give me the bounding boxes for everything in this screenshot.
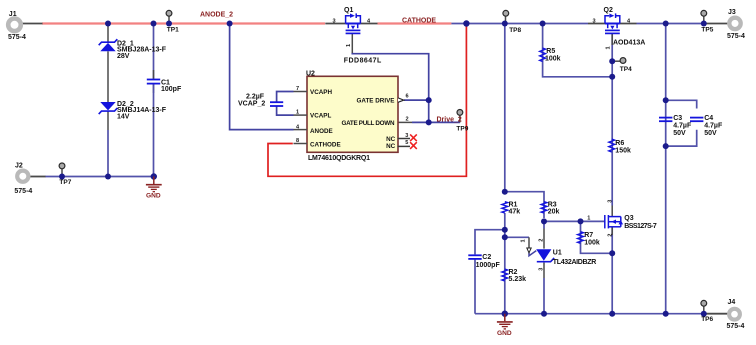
wire GATE DRIVE pin bbox=[404, 99, 429, 101]
svg-text:575-4: 575-4 bbox=[14, 188, 32, 195]
svg-text:2: 2 bbox=[406, 116, 409, 122]
U2 pin 7 VCAPH bbox=[294, 86, 333, 96]
ground GND bottom bbox=[497, 314, 513, 337]
svg-text:3: 3 bbox=[607, 200, 613, 203]
wire TP6 stub bbox=[703, 306, 705, 314]
svg-text:TP5: TP5 bbox=[701, 26, 713, 33]
wire Q3 source down bbox=[611, 227, 613, 314]
wire bottom GND rail bbox=[475, 313, 705, 315]
testpoint TP9 bbox=[456, 110, 468, 133]
svg-text:NC: NC bbox=[386, 143, 396, 150]
node junction GATE DRIVE node bbox=[426, 97, 432, 103]
svg-text:TP4: TP4 bbox=[620, 66, 632, 73]
connector J4 bbox=[727, 299, 745, 330]
wire C2 lower bbox=[474, 260, 476, 314]
svg-text:TL432AIDBZR: TL432AIDBZR bbox=[553, 259, 597, 266]
wire TP7 stub bbox=[61, 169, 63, 177]
wire Q2 gate vertical bbox=[611, 34, 613, 206]
U2 pin 6 GATE DRIVE bbox=[356, 94, 408, 105]
transistor Q1 FDD8647L bbox=[325, 7, 382, 65]
svg-text:50V: 50V bbox=[673, 130, 686, 137]
testpoint TP8 bbox=[503, 10, 522, 34]
wire TP5 stub bbox=[703, 16, 705, 23]
node junction C3 C4 top bbox=[663, 97, 669, 103]
svg-text:50V: 50V bbox=[704, 130, 717, 137]
shunt reference U1 TL432AIDBZR bbox=[520, 239, 596, 271]
U2 pin 1 VCAPL bbox=[294, 110, 332, 120]
wire U1 anode pin stub bbox=[543, 263, 545, 278]
svg-text:575-4: 575-4 bbox=[727, 323, 745, 330]
node junction Q3 source bottom bbox=[609, 311, 615, 317]
ground GND left bbox=[146, 177, 162, 200]
node junction GATE PULL DOWN node bbox=[426, 119, 432, 125]
node junction C3 top rail bbox=[663, 21, 669, 27]
node junction TP7 bbox=[59, 174, 65, 180]
svg-text:1: 1 bbox=[587, 215, 590, 221]
svg-text:5.23k: 5.23k bbox=[509, 276, 527, 283]
svg-text:TP6: TP6 bbox=[701, 316, 713, 323]
U2 pin 8 CATHODE bbox=[294, 138, 341, 148]
resistor R5 100k bbox=[540, 48, 561, 62]
wire U1 cathode pin stub bbox=[543, 229, 545, 249]
node junction GND bottom bbox=[502, 311, 508, 317]
connector J3 bbox=[727, 9, 745, 40]
svg-text:1: 1 bbox=[606, 46, 612, 49]
svg-text:2: 2 bbox=[607, 234, 613, 237]
svg-text:1: 1 bbox=[520, 239, 526, 242]
svg-text:VCAP_2: VCAP_2 bbox=[238, 100, 265, 107]
node junction C3 C4 bottom bbox=[663, 143, 669, 149]
wire GATE PULL DOWN stub bbox=[398, 121, 413, 123]
svg-text:8: 8 bbox=[296, 138, 299, 144]
svg-text:C4: C4 bbox=[704, 115, 713, 122]
node junction TP1 bbox=[166, 21, 172, 27]
wire GATE PULL DOWN to TP9 bbox=[412, 121, 460, 123]
wire D2 branch bbox=[107, 25, 109, 131]
wire C4 loop bbox=[666, 100, 697, 108]
node junction R7 Q3 source bbox=[609, 250, 615, 256]
svg-text:J1: J1 bbox=[9, 11, 17, 18]
svg-text:3: 3 bbox=[405, 133, 408, 139]
zener diode D2_2 bbox=[99, 101, 167, 121]
wire TP8 stub bbox=[505, 16, 507, 23]
capacitor C4 4.7uF bbox=[690, 115, 723, 137]
resistor R3 20k bbox=[541, 202, 559, 216]
wire VCAP loop top bbox=[277, 92, 294, 102]
svg-text:VCAPL: VCAPL bbox=[310, 112, 331, 119]
testpoint TP7 bbox=[59, 163, 72, 186]
zener diode D2_1 bbox=[99, 39, 167, 60]
node junction R1 R3 top bbox=[502, 189, 508, 195]
capacitor C3 4.7uF bbox=[659, 115, 692, 137]
wire net ANODE_2 vertical to U2 bbox=[230, 24, 294, 130]
node junction D2 top rail bbox=[105, 21, 111, 27]
wire R1 to dots bbox=[504, 213, 506, 237]
U2 pin 2 GATE PULL DOWN bbox=[342, 116, 409, 127]
node junction CATHODE red tap bbox=[463, 20, 469, 26]
wire J1 stub bbox=[22, 23, 43, 25]
node junction C3 bottom rail bbox=[663, 311, 669, 317]
node junction TP5 bbox=[701, 21, 707, 27]
svg-text:6: 6 bbox=[406, 94, 409, 100]
svg-text:VCAPH: VCAPH bbox=[310, 89, 332, 96]
svg-text:150k: 150k bbox=[615, 147, 631, 154]
wire J2 stub bbox=[30, 176, 46, 178]
svg-text:R7: R7 bbox=[584, 232, 593, 239]
wire TP9 stub bbox=[459, 115, 461, 122]
wire R1 R2 chain bbox=[504, 237, 506, 313]
svg-text:2: 2 bbox=[539, 239, 545, 242]
svg-text:47k: 47k bbox=[509, 208, 521, 215]
wire Q3 drain stub bbox=[611, 206, 613, 217]
node junction TP8 bbox=[502, 21, 508, 27]
wire Q1 gate pin stub bbox=[351, 34, 353, 53]
wire U1 ref elbow bbox=[529, 251, 536, 256]
svg-text:20k: 20k bbox=[548, 208, 560, 215]
wire U1 anode down bbox=[543, 278, 545, 314]
transistor Q3 BSS127S-7 bbox=[587, 200, 657, 237]
svg-text:28V: 28V bbox=[117, 53, 130, 60]
wire Q1 gate to GATE DRIVE bbox=[352, 53, 428, 123]
svg-text:Q1: Q1 bbox=[344, 7, 353, 14]
svg-text:U2: U2 bbox=[306, 70, 315, 77]
svg-text:R2: R2 bbox=[509, 269, 518, 276]
capacitor C1 bbox=[147, 79, 182, 93]
wire C3 branch vertical bbox=[665, 24, 667, 314]
node junction C2 tap bbox=[502, 227, 508, 233]
node junction R7 top bbox=[578, 218, 584, 224]
transistor Q2 AOD413A bbox=[588, 7, 645, 50]
svg-text:C2: C2 bbox=[482, 254, 491, 261]
svg-text:J4: J4 bbox=[728, 299, 736, 306]
svg-text:C3: C3 bbox=[673, 115, 682, 122]
connector J2 bbox=[14, 162, 32, 195]
node junction C1 top rail bbox=[151, 21, 157, 27]
capacitor VCAP 2.2uF bbox=[238, 94, 283, 108]
svg-text:14V: 14V bbox=[117, 114, 130, 121]
wire J3 stub bbox=[706, 23, 727, 25]
svg-text:J3: J3 bbox=[728, 9, 736, 16]
wire bottom-left GND rail bbox=[45, 176, 154, 178]
wire C1 branch bbox=[153, 24, 155, 80]
svg-text:3: 3 bbox=[333, 18, 336, 24]
svg-text:J2: J2 bbox=[15, 162, 23, 169]
testpoint TP1 bbox=[166, 10, 179, 33]
svg-text:1: 1 bbox=[296, 110, 299, 116]
svg-text:R6: R6 bbox=[615, 140, 624, 147]
wire R7 branch bbox=[581, 221, 613, 253]
node junction U1 anode bottom bbox=[541, 311, 547, 317]
wire gate row to Q3 bbox=[544, 220, 605, 222]
wire R1 R3 top link bbox=[505, 192, 544, 218]
U2 pin 3 NC bbox=[386, 133, 417, 143]
wire C1 branch lower bbox=[153, 84, 155, 176]
wire TP4 stub bbox=[612, 60, 620, 62]
svg-text:R5: R5 bbox=[546, 48, 555, 55]
svg-text:Drive_2: Drive_2 bbox=[437, 117, 462, 124]
U2 pin 5 NC bbox=[386, 140, 417, 150]
svg-text:AOD413A: AOD413A bbox=[613, 40, 645, 47]
wire U1 ref stub bbox=[528, 237, 530, 247]
testpoint TP6 bbox=[701, 300, 714, 323]
node junction GND left bbox=[151, 173, 157, 179]
wire red CATHODE feedback loop bbox=[268, 24, 466, 177]
wire J4 stub bbox=[706, 313, 728, 315]
svg-text:Q3: Q3 bbox=[624, 215, 633, 222]
node junction R5 to gate net bbox=[609, 74, 615, 80]
svg-text:4.7µF: 4.7µF bbox=[673, 123, 692, 130]
wire TP8 vertical to R1 bbox=[504, 24, 506, 192]
svg-text:GATE PULL DOWN: GATE PULL DOWN bbox=[342, 120, 395, 127]
op-amp U2 LM74610QDGKRQ1 body bbox=[306, 70, 398, 162]
node junction R5 tap bbox=[540, 21, 546, 27]
wire VCAP loop bottom bbox=[277, 106, 294, 115]
U2 pin 4 ANODE bbox=[294, 124, 333, 135]
wire Q3 source pin stub bbox=[611, 227, 613, 235]
svg-text:ANODE: ANODE bbox=[310, 128, 333, 135]
svg-text:U1: U1 bbox=[553, 250, 562, 257]
wire U1 ref branch bbox=[505, 236, 529, 238]
svg-text:4.7µF: 4.7µF bbox=[704, 123, 723, 130]
svg-text:CATHODE: CATHODE bbox=[402, 18, 436, 25]
svg-text:TP8: TP8 bbox=[509, 27, 521, 34]
wire U1 vertical cathode bbox=[543, 221, 545, 228]
svg-text:FDD8647L: FDD8647L bbox=[344, 58, 382, 65]
svg-text:7: 7 bbox=[296, 86, 299, 92]
svg-text:3: 3 bbox=[539, 268, 545, 271]
node junction D2 bottom bbox=[105, 174, 111, 180]
wire top rail blue mid to Q2 bbox=[451, 23, 588, 25]
node junction U1 ref tap bbox=[502, 234, 508, 240]
svg-text:575-4: 575-4 bbox=[8, 34, 26, 41]
resistor R6 150k bbox=[609, 139, 631, 154]
node junction U1 cathode node bbox=[541, 218, 547, 224]
node junction TP6 bbox=[701, 311, 707, 317]
svg-text:CATHODE: CATHODE bbox=[310, 142, 341, 149]
resistor R2 5.23k bbox=[502, 269, 526, 283]
node junction TP4 bbox=[609, 58, 615, 64]
connector J1 bbox=[8, 11, 26, 41]
svg-text:TP1: TP1 bbox=[167, 26, 179, 33]
wire C2 branch bbox=[475, 230, 505, 255]
svg-text:BSS127S-7: BSS127S-7 bbox=[624, 223, 657, 230]
svg-text:TP7: TP7 bbox=[59, 179, 71, 186]
svg-text:100pF: 100pF bbox=[161, 86, 182, 93]
svg-text:5: 5 bbox=[405, 140, 408, 146]
node junction ANODE_2 tap bbox=[227, 21, 233, 27]
svg-text:GND: GND bbox=[497, 330, 512, 337]
wire Q2 gate pin stub bbox=[611, 34, 613, 45]
svg-text:3: 3 bbox=[593, 18, 596, 24]
wire TP1 stub bbox=[168, 16, 170, 23]
svg-text:575-4: 575-4 bbox=[727, 33, 745, 40]
resistor R1 47k bbox=[502, 202, 520, 216]
svg-text:100k: 100k bbox=[584, 239, 600, 246]
svg-text:1000pF: 1000pF bbox=[476, 262, 501, 269]
wire net ANODE_2 top rail salmon J1 to Q1 bbox=[42, 22, 325, 24]
wire D2 branch lower blue bbox=[107, 130, 109, 177]
svg-text:GND: GND bbox=[146, 192, 161, 199]
testpoint TP4 bbox=[620, 58, 632, 73]
svg-text:100k: 100k bbox=[545, 55, 561, 62]
testpoint TP5 bbox=[701, 10, 714, 33]
svg-text:LM74610QDGKRQ1: LM74610QDGKRQ1 bbox=[308, 155, 370, 162]
capacitor C2 1000pF bbox=[468, 254, 500, 269]
svg-text:ANODE_2: ANODE_2 bbox=[200, 11, 233, 18]
resistor R7 100k bbox=[578, 232, 600, 247]
wire net CATHODE salmon Q1 to mid bbox=[378, 22, 452, 24]
svg-text:GATE DRIVE: GATE DRIVE bbox=[356, 98, 394, 105]
svg-text:TP9: TP9 bbox=[456, 125, 468, 132]
wire C4 loop bottom bbox=[666, 130, 697, 146]
wire top rail blue Q2 to TP5 bbox=[637, 23, 706, 25]
wire R5 branch bbox=[543, 24, 613, 77]
svg-text:Q2: Q2 bbox=[604, 7, 613, 14]
svg-text:1: 1 bbox=[346, 44, 352, 47]
